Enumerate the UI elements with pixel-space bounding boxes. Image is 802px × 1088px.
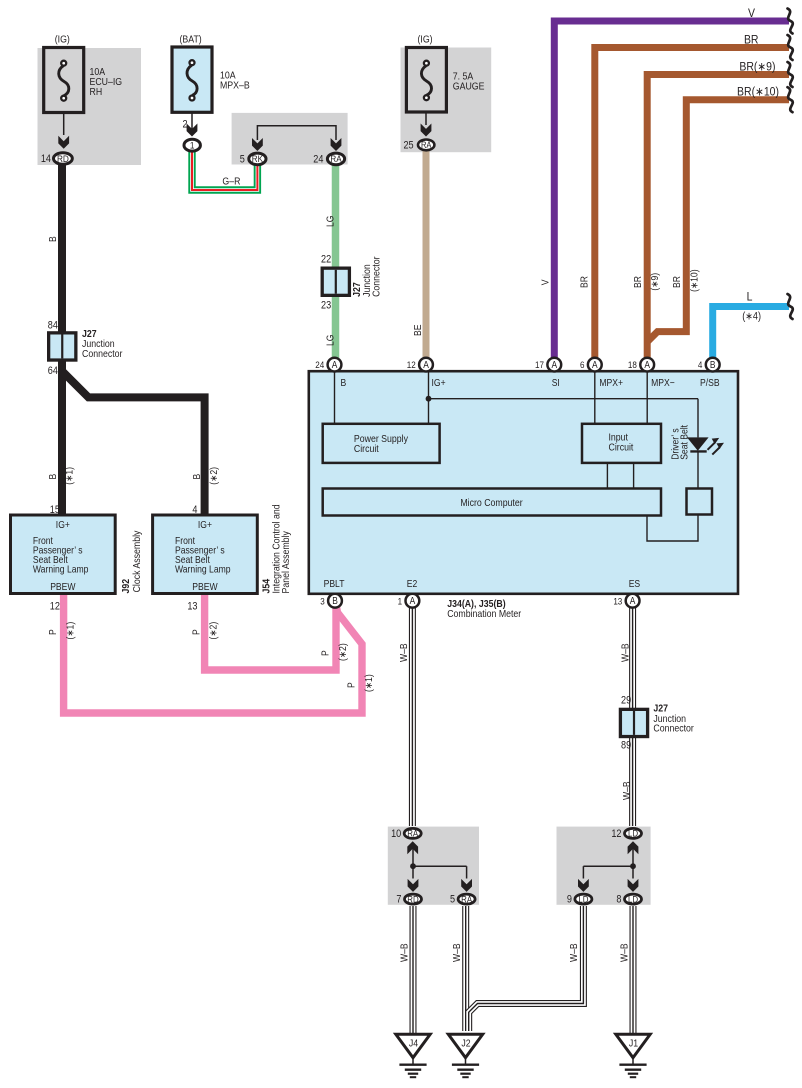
svg-text:E2: E2 xyxy=(407,578,418,589)
svg-text:4: 4 xyxy=(698,360,703,371)
svg-text:B: B xyxy=(48,474,59,480)
svg-text:Connector: Connector xyxy=(371,256,383,296)
svg-text:17: 17 xyxy=(535,360,544,371)
svg-text:BR: BR xyxy=(579,276,590,288)
svg-text:LG: LG xyxy=(325,335,336,346)
svg-text:PBLT: PBLT xyxy=(324,578,345,589)
svg-text:ES: ES xyxy=(629,578,640,589)
svg-text:A: A xyxy=(423,360,429,371)
svg-text:BR(∗9): BR(∗9) xyxy=(739,61,775,74)
svg-text:(∗1): (∗1) xyxy=(363,674,374,692)
svg-text:LD: LD xyxy=(628,828,638,839)
svg-text:(∗1): (∗1) xyxy=(64,467,75,485)
svg-text:RA: RA xyxy=(407,828,418,839)
svg-text:J4: J4 xyxy=(409,1038,418,1050)
svg-text:A: A xyxy=(644,360,650,371)
svg-text:84: 84 xyxy=(48,320,59,332)
svg-text:RA: RA xyxy=(461,894,472,905)
svg-text:Combination Meter: Combination Meter xyxy=(447,608,521,620)
svg-text:A: A xyxy=(332,360,338,371)
svg-text:W–B: W–B xyxy=(619,943,630,962)
svg-text:BR: BR xyxy=(632,276,643,288)
svg-text:Connector: Connector xyxy=(82,348,122,360)
svg-text:(IG): (IG) xyxy=(55,34,70,46)
svg-text:IG+: IG+ xyxy=(56,519,70,530)
svg-text:P: P xyxy=(48,629,59,635)
svg-text:MPX–B: MPX–B xyxy=(220,80,250,92)
svg-text:BR: BR xyxy=(744,34,759,47)
svg-text:(∗9): (∗9) xyxy=(649,273,660,291)
svg-text:Warning Lamp: Warning Lamp xyxy=(175,564,231,575)
svg-text:13: 13 xyxy=(613,596,622,607)
svg-text:23: 23 xyxy=(321,300,332,312)
svg-text:29: 29 xyxy=(621,695,632,707)
svg-text:PBEW: PBEW xyxy=(192,581,217,592)
svg-text:Panel Assembly: Panel Assembly xyxy=(281,531,293,594)
svg-text:V: V xyxy=(540,279,551,285)
svg-text:L: L xyxy=(747,291,753,304)
svg-text:RK: RK xyxy=(252,154,263,165)
svg-text:LD: LD xyxy=(578,894,588,905)
svg-text:(BAT): (BAT) xyxy=(179,34,201,46)
svg-text:RA: RA xyxy=(421,141,432,151)
svg-text:12: 12 xyxy=(50,601,60,613)
svg-text:G–R: G–R xyxy=(222,176,240,188)
svg-text:1: 1 xyxy=(398,596,403,607)
svg-text:B: B xyxy=(191,474,202,480)
svg-text:24: 24 xyxy=(315,360,324,371)
svg-text:RA: RA xyxy=(330,154,341,165)
svg-text:RD: RD xyxy=(57,153,69,164)
svg-text:64: 64 xyxy=(48,365,59,377)
svg-text:SI: SI xyxy=(552,377,560,388)
svg-text:12: 12 xyxy=(407,360,416,371)
svg-text:P/SB: P/SB xyxy=(700,377,720,388)
svg-text:RH: RH xyxy=(90,87,103,99)
svg-text:P: P xyxy=(320,650,331,656)
svg-text:A: A xyxy=(630,596,636,607)
svg-text:B: B xyxy=(48,236,59,242)
svg-text:89: 89 xyxy=(621,740,632,752)
svg-text:3: 3 xyxy=(320,596,325,607)
svg-text:(∗1): (∗1) xyxy=(65,622,76,640)
svg-text:Connector: Connector xyxy=(653,723,693,735)
svg-text:B: B xyxy=(710,360,716,371)
svg-text:25: 25 xyxy=(403,140,414,152)
svg-text:BE: BE xyxy=(413,325,424,336)
svg-text:BR: BR xyxy=(672,276,683,288)
svg-text:A: A xyxy=(410,596,416,607)
svg-text:MPX+: MPX+ xyxy=(599,377,623,388)
svg-text:MPX−: MPX− xyxy=(651,377,675,388)
svg-text:7: 7 xyxy=(396,894,401,906)
svg-text:Clock Assembly: Clock Assembly xyxy=(131,530,143,592)
svg-text:(∗2): (∗2) xyxy=(209,467,220,485)
svg-text:24: 24 xyxy=(313,154,324,166)
svg-text:GAUGE: GAUGE xyxy=(453,81,485,93)
svg-text:Warning Lamp: Warning Lamp xyxy=(33,564,89,575)
svg-text:14: 14 xyxy=(41,153,52,165)
svg-text:W–B: W–B xyxy=(620,643,631,662)
svg-text:Seat Belt: Seat Belt xyxy=(679,425,690,460)
svg-text:BR(∗10): BR(∗10) xyxy=(737,86,779,99)
svg-text:RD: RD xyxy=(407,894,418,905)
svg-text:A: A xyxy=(551,360,557,371)
svg-text:15: 15 xyxy=(50,505,61,517)
svg-text:9: 9 xyxy=(567,894,573,906)
svg-text:1: 1 xyxy=(190,140,195,151)
svg-text:5: 5 xyxy=(450,894,456,906)
svg-text:Micro Computer: Micro Computer xyxy=(460,497,522,509)
svg-text:6: 6 xyxy=(580,360,585,371)
svg-text:18: 18 xyxy=(628,360,637,371)
svg-text:(∗10): (∗10) xyxy=(689,269,700,291)
svg-text:Circuit: Circuit xyxy=(354,444,379,456)
svg-text:W–B: W–B xyxy=(621,781,632,800)
svg-text:13: 13 xyxy=(187,601,198,613)
svg-text:LD: LD xyxy=(628,894,638,905)
svg-text:10: 10 xyxy=(391,828,402,840)
svg-text:W–B: W–B xyxy=(569,943,580,962)
svg-text:P: P xyxy=(191,629,202,635)
svg-text:P: P xyxy=(346,682,357,688)
svg-text:(∗4): (∗4) xyxy=(742,311,761,323)
svg-text:(∗2): (∗2) xyxy=(338,643,349,661)
svg-text:(IG): (IG) xyxy=(417,34,432,46)
svg-text:5: 5 xyxy=(240,154,246,166)
svg-text:V: V xyxy=(748,7,755,20)
svg-text:PBEW: PBEW xyxy=(50,581,75,592)
svg-text:IG+: IG+ xyxy=(198,519,212,530)
svg-text:W–B: W–B xyxy=(399,943,410,962)
svg-text:W–B: W–B xyxy=(452,943,463,962)
svg-text:A: A xyxy=(592,360,598,371)
svg-text:B: B xyxy=(332,596,338,607)
svg-text:J1: J1 xyxy=(629,1038,638,1050)
svg-text:W–B: W–B xyxy=(398,643,409,662)
svg-text:4: 4 xyxy=(192,505,198,517)
svg-text:B: B xyxy=(341,377,347,388)
svg-text:12: 12 xyxy=(611,828,621,840)
svg-text:22: 22 xyxy=(321,254,331,266)
svg-text:8: 8 xyxy=(616,894,622,906)
svg-text:Circuit: Circuit xyxy=(609,442,634,454)
svg-text:J2: J2 xyxy=(461,1038,470,1050)
svg-text:LG: LG xyxy=(325,216,336,227)
svg-text:(∗2): (∗2) xyxy=(208,622,219,640)
svg-text:IG+: IG+ xyxy=(432,377,446,388)
